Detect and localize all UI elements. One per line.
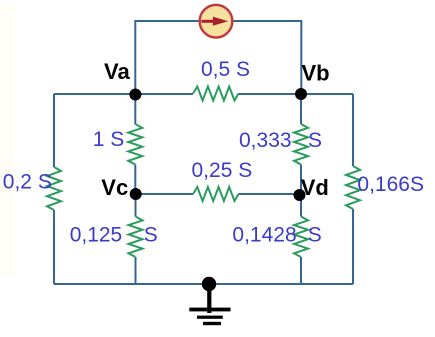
wire: bottom horizontal — [54, 283, 353, 285]
resistor 0,166S (right outer) — [346, 166, 360, 209]
node Vd (junction dot) — [294, 189, 306, 201]
wire: row Vc-Vd left segment — [136, 193, 194, 195]
svg-text:Vd: Vd — [301, 175, 329, 200]
wire: Vd to 0.1428S resistor — [300, 195, 302, 217]
wire: top horizontal from Va column to Vb column — [135, 21, 301, 94]
current source I1 (circle) — [200, 5, 233, 38]
resistor 0,5 S (between Va and Vb) — [193, 87, 239, 101]
wire: Vc to 0.125S resistor — [135, 194, 137, 217]
wire: left outer branch upper — [53, 94, 55, 167]
wire: row Vc-Vd right segment — [239, 193, 302, 195]
wire: 0.333S resistor to Vd — [300, 165, 302, 196]
node Vc (junction dot) — [130, 188, 142, 200]
resistor 0,1428 S (below Vd) — [294, 217, 308, 258]
ground bar 3 — [203, 322, 221, 325]
svg-text:0,333: 0,333 — [239, 129, 292, 152]
svg-text:S: S — [308, 224, 322, 247]
ground stem — [207, 284, 211, 313]
svg-text:Vc: Vc — [101, 175, 128, 200]
ground bar 1 — [189, 308, 230, 312]
svg-text:S: S — [308, 129, 322, 152]
wire: Vb to 0.333S resistor — [300, 94, 302, 124]
resistor 1 S (between Va and Vc) — [128, 124, 142, 165]
ground junction dot — [202, 277, 216, 291]
wire: row Va-Vb left segment — [54, 93, 193, 95]
wire: Va to 1S resistor — [134, 94, 136, 124]
svg-text:S: S — [144, 224, 158, 247]
ground bar 2 — [197, 316, 223, 319]
svg-text:Vb: Vb — [302, 61, 330, 86]
wire: 0.1428S resistor to bottom — [300, 257, 302, 284]
resistor 0,125 S (below Vc) — [129, 217, 143, 258]
resistor 0,333 S (between Vb and Vd) — [294, 124, 308, 165]
wire: right outer branch lower — [352, 209, 354, 284]
wire: row Va-Vb right segment — [239, 93, 354, 95]
svg-text:0,5 S: 0,5 S — [201, 58, 250, 81]
resistor 0,25 S (between Vc and Vd) — [193, 187, 239, 201]
svg-text:0,25 S: 0,25 S — [192, 159, 253, 182]
wire: left outer branch lower — [53, 210, 55, 284]
svg-text:1 S: 1 S — [93, 128, 125, 151]
svg-text:0,125: 0,125 — [70, 224, 123, 247]
svg-text:Va: Va — [104, 59, 130, 84]
resistor 0,2 S (left outer) — [47, 167, 61, 210]
svg-text:0,166S: 0,166S — [357, 173, 424, 196]
node Va (junction dot) — [129, 89, 141, 101]
current source arrow — [202, 17, 229, 26]
svg-text:0,2 S: 0,2 S — [3, 171, 52, 194]
wire: right outer branch upper — [352, 94, 354, 166]
wire: 1S resistor to Vc — [134, 165, 136, 195]
svg-text:0,1428: 0,1428 — [232, 224, 296, 247]
wire: 0.125S resistor to bottom — [135, 257, 137, 284]
node Vb (junction dot) — [295, 88, 307, 100]
